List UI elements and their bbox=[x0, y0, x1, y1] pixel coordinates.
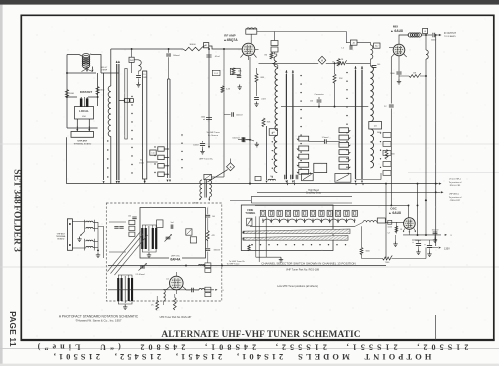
mark bottom right vline bbox=[435, 315, 437, 340]
gnd ps a bbox=[418, 246, 420, 249]
mixer plate wire up bbox=[399, 35, 409, 44]
neutralizing box above tube bbox=[246, 29, 257, 34]
osc coil vert bbox=[164, 290, 166, 301]
fold crease right mid bbox=[408, 172, 499, 174]
bus osc y289.8 bbox=[108, 289, 199, 291]
cap right of tube bbox=[192, 288, 194, 292]
gang2 bar b1 bbox=[128, 278, 130, 301]
UHF ant terminal board bbox=[71, 132, 94, 138]
gang top wires bbox=[142, 225, 156, 228]
osc bottom wire bbox=[408, 233, 410, 235]
coil on busB+ 1 bbox=[199, 265, 205, 266]
cap 68 ticks bbox=[237, 76, 241, 78]
wires LOCAL box down bbox=[76, 119, 78, 131]
balun top coil b bbox=[86, 227, 93, 228]
mix converter box bbox=[369, 122, 382, 130]
rf ladder coil lower bbox=[274, 136, 277, 173]
gang stator a bbox=[148, 226, 150, 251]
uhf coil column lead bbox=[110, 137, 112, 184]
rf tap box 1 bbox=[299, 136, 309, 141]
wire right column bbox=[207, 208, 209, 215]
arrow x right bbox=[445, 234, 447, 236]
rf slug rod 1 bbox=[285, 74, 287, 179]
contact dots col x182 bbox=[181, 134, 182, 135]
vhf ant wires bbox=[72, 221, 85, 223]
bus1 y183.6 bbox=[67, 183, 439, 185]
vertical x250 long bbox=[249, 57, 251, 184]
cap 1000mf ps a bbox=[416, 244, 421, 246]
mix tap box 1 bbox=[339, 128, 349, 133]
trimmer 1-5 cap bbox=[136, 76, 141, 78]
res 5600 mix bbox=[385, 150, 388, 160]
fold crease lower bbox=[0, 266, 499, 268]
bus2 dots bbox=[435, 191, 437, 193]
cap x238-250 y139 gnd bbox=[255, 142, 259, 147]
bus B+ dots bbox=[185, 265, 187, 267]
cap .01 on x209 bbox=[206, 55, 211, 57]
gang diagonal 2 bbox=[111, 234, 144, 274]
wafer1 rod a bbox=[116, 64, 118, 180]
trimmer capacitor bar A bbox=[80, 98, 83, 107]
diagonal diamond to transformer bbox=[208, 170, 228, 182]
channel contact wave bbox=[263, 219, 355, 223]
gang2 bar b2 bbox=[131, 278, 133, 301]
rf ladder coil box break bbox=[269, 129, 277, 136]
rf contact dots bbox=[300, 75, 301, 76]
cap 100mmf mix top bbox=[372, 66, 377, 68]
res 68K x256 bbox=[255, 74, 258, 83]
bus B+ y265.5 bbox=[108, 265, 386, 267]
bottom page edge shadow bbox=[0, 364, 499, 366]
cap .01 x256 bbox=[254, 98, 259, 100]
crystal box wires bbox=[131, 49, 133, 57]
rf tap box 4 bbox=[299, 162, 309, 167]
gnd mixer bbox=[398, 60, 400, 71]
rf ladder coil upper bbox=[275, 69, 278, 131]
antenna tap arrow 2 bbox=[92, 70, 94, 72]
wire y100 bbox=[119, 99, 124, 101]
coil on bus osc bbox=[199, 289, 205, 290]
uhf coil top lead bbox=[110, 73, 112, 86]
mix contact dots bbox=[346, 72, 347, 73]
contact dots col x272 bbox=[272, 132, 273, 133]
rf tap box 2 bbox=[299, 146, 309, 151]
vhf ant terminal strip bbox=[67, 219, 72, 251]
box A7 bbox=[271, 41, 278, 46]
rf choke coil bbox=[139, 60, 142, 71]
wire board to bus bbox=[66, 137, 68, 183]
wire x256 stub bbox=[256, 68, 258, 74]
osc grid cap box bbox=[388, 220, 392, 224]
balun core bot bbox=[84, 239, 86, 251]
transformer core lines bbox=[204, 180, 206, 198]
uhf twin arrows bbox=[167, 180, 169, 182]
svg-text:FOLDER 3: FOLDER 3 bbox=[12, 205, 22, 252]
wafer1 rod b bbox=[118, 64, 120, 180]
cap 100mf x202 bbox=[200, 144, 205, 146]
gang bottom gnd bbox=[142, 249, 156, 252]
balun top coil a bbox=[86, 221, 93, 222]
right drop wire bbox=[97, 73, 99, 106]
channel dots row bbox=[251, 244, 252, 245]
rf tap box 3 bbox=[299, 154, 309, 159]
bus2 y192.3 bbox=[257, 191, 441, 193]
vhf ant dots bbox=[69, 223, 71, 225]
transformer lead left bbox=[200, 197, 203, 200]
vhf ant bottom gnd bbox=[97, 250, 99, 252]
bus3 left stub bbox=[230, 199, 251, 201]
line boxes pair 1 bbox=[205, 263, 211, 268]
left drop wire bbox=[66, 55, 68, 129]
mix right tap box 1 bbox=[383, 133, 391, 138]
top bus right segment bbox=[209, 46, 242, 49]
vertical drops switch bbox=[255, 216, 257, 257]
gnd ps b bbox=[429, 248, 431, 251]
balun bot coil b bbox=[86, 246, 93, 247]
vertical x209 drop bbox=[208, 49, 210, 147]
coil W501 bbox=[408, 33, 421, 37]
node dot left y97 bbox=[66, 96, 68, 98]
bus y63 left bbox=[259, 62, 319, 64]
coil row y180 bbox=[268, 179, 276, 180]
top bus left segment bbox=[111, 48, 183, 50]
b+ boxes col 2 bbox=[158, 155, 164, 159]
uhf dashed enclosure bbox=[106, 203, 222, 301]
transformer secondary winding bbox=[209, 180, 211, 197]
arrow x209 down bbox=[208, 146, 210, 148]
test point diamond B bbox=[227, 163, 235, 171]
frame bottom emphasis bbox=[21, 339, 495, 341]
res 47K right of box bbox=[206, 231, 209, 241]
trimmer capacitor bar B bbox=[86, 98, 89, 107]
node x425 bus3 bbox=[425, 199, 427, 201]
vertical x391.3 long bbox=[390, 57, 392, 104]
coil crossing wires bbox=[83, 68, 93, 72]
osc grid wire bbox=[385, 221, 403, 223]
wire bottom loop bbox=[67, 127, 98, 129]
trimmer arrow inner bbox=[166, 237, 171, 239]
uhf coil column bbox=[108, 86, 111, 136]
wire grid mixer bbox=[370, 59, 372, 63]
rf tube stubs bbox=[241, 54, 244, 58]
vertical x426 ps bbox=[425, 248, 427, 259]
mix tap box 4 bbox=[339, 150, 349, 155]
gang cap bar a2 bbox=[145, 228, 147, 249]
wafer2 arrow bbox=[144, 181, 146, 184]
vertical x391.3 lower bbox=[390, 109, 392, 206]
cap right of box bbox=[205, 215, 210, 217]
mix tap box 2 bbox=[339, 135, 349, 140]
coil interstage bbox=[371, 45, 373, 59]
uhf osc solid box bbox=[140, 208, 206, 259]
svg-text:PAGE 11: PAGE 11 bbox=[8, 311, 17, 347]
antenna tap arrow 1 bbox=[86, 70, 88, 72]
gang diagonal 3 bbox=[115, 235, 148, 275]
mix slug rod 1 bbox=[355, 70, 357, 179]
gang2 bar a1 bbox=[117, 278, 119, 301]
converter bus bbox=[281, 106, 368, 108]
box A12 bbox=[374, 43, 380, 48]
contact dots col x132 bbox=[131, 96, 132, 97]
gnd x256 bbox=[254, 102, 258, 107]
stub 1000mf bbox=[246, 139, 250, 141]
rf big box L32 bbox=[314, 163, 327, 172]
fold crease bottom bbox=[0, 348, 499, 350]
osc tube 6AU8 bbox=[404, 218, 416, 230]
uhf twin lines right bbox=[167, 79, 169, 178]
bus y63 right bbox=[326, 62, 338, 64]
node dot left y73 bbox=[66, 72, 68, 74]
osc cover rect bbox=[251, 197, 352, 203]
wire tube top to box bbox=[250, 34, 252, 43]
mix right tap box 5 bbox=[383, 171, 391, 176]
res 82K bbox=[262, 118, 265, 127]
wafer1 line pre bbox=[103, 73, 105, 180]
row down arrows bbox=[287, 183, 289, 185]
wire A10 to coil bbox=[275, 52, 277, 56]
res 25K bbox=[333, 74, 336, 83]
arrow 135V bbox=[439, 247, 441, 249]
choke top wire bbox=[138, 59, 140, 61]
box L30 bbox=[255, 176, 261, 180]
vertical x426 lower bbox=[425, 59, 427, 235]
RF amp tube 4BQ7A bbox=[242, 43, 255, 56]
res small fine bbox=[248, 245, 250, 251]
trimmer 1-1.5 box bbox=[212, 70, 220, 75]
gang cap bar b2 bbox=[155, 228, 157, 249]
vertical x386 bbox=[385, 184, 387, 259]
wire x202 stub bbox=[202, 141, 204, 143]
rf slug rod 2 bbox=[292, 74, 294, 179]
svg-text:HOTPOINT MODELS 21S401, 21S451: HOTPOINT MODELS 21S401, 21S451, 21S452, … bbox=[51, 352, 432, 361]
res 15K bbox=[409, 73, 421, 77]
balun core top bbox=[84, 220, 86, 232]
bus2 arrow bbox=[441, 191, 444, 193]
cap 2.2 on x391 bbox=[389, 105, 394, 107]
uhf twin top hook bbox=[168, 78, 171, 80]
resistor 36000 bbox=[183, 46, 205, 51]
cap 180mmf bbox=[205, 249, 210, 251]
cap 1MF inner bbox=[171, 225, 173, 229]
row arrows right bbox=[355, 183, 357, 185]
wire ps junction bbox=[418, 240, 420, 243]
b+ boxes col 3 bbox=[158, 164, 164, 168]
hatch bar 1 bbox=[243, 229, 350, 234]
transformer top box bbox=[204, 174, 212, 179]
terminal board arrow 1 bbox=[76, 129, 78, 131]
gnd cap right bbox=[434, 235, 436, 238]
res 1K mixer bbox=[337, 59, 340, 67]
gang cap bar b1 bbox=[152, 228, 154, 249]
stub interstage to A7 bbox=[274, 32, 276, 41]
gang2 bar a2 bbox=[121, 278, 123, 301]
diamond stub up bbox=[230, 159, 232, 163]
wire y235 bbox=[403, 234, 441, 236]
resistor 240ohm left bbox=[65, 90, 68, 98]
res 5600 switch bbox=[361, 226, 363, 247]
vertical x417.5 bbox=[417, 184, 419, 235]
gnd x395 bbox=[393, 242, 397, 247]
uhf cap left pair bbox=[114, 227, 118, 229]
channel wire y226.3 bbox=[250, 225, 355, 227]
uhf osc tube stubs bbox=[175, 272, 177, 276]
gang2 bottom bbox=[118, 301, 132, 304]
box A10 bbox=[271, 47, 278, 52]
wafer2 stem bbox=[144, 179, 146, 182]
if output arrow bbox=[439, 34, 442, 36]
cap 100mf if bbox=[433, 33, 435, 37]
osc cathode drop bbox=[395, 222, 397, 233]
arrow bus osc x bbox=[215, 289, 217, 291]
uhf box small box 1 bbox=[129, 220, 135, 224]
node dot bus x224 bbox=[223, 48, 225, 50]
res under tube bbox=[173, 298, 176, 310]
cap inner top bbox=[132, 217, 136, 219]
stub arrows feed bbox=[86, 67, 88, 70]
wire B+ to boxes bbox=[147, 161, 158, 163]
wire coil to corner bbox=[92, 55, 101, 74]
switch gnd wire bbox=[256, 256, 281, 258]
svg-text:21S502, 21S551, 21S552, 24S801: 21S502, 21S551, 21S552, 24S801, 24S802 (… bbox=[34, 342, 469, 351]
wire y258.5 bbox=[362, 258, 383, 260]
mix rod bottom arrows bbox=[355, 181, 357, 183]
box A106 bbox=[190, 237, 196, 243]
cap 1.5mmf mixer bbox=[350, 45, 352, 49]
switch contact box 1 bbox=[302, 174, 314, 181]
coil below A10 bbox=[274, 56, 277, 67]
mix tap box 3 bbox=[339, 142, 349, 147]
mix slug rod 2 bbox=[361, 70, 363, 179]
wire 25K bbox=[334, 63, 336, 74]
box L8 bbox=[423, 28, 428, 33]
line boxes pair 2 bbox=[205, 287, 211, 292]
vertical x426 down bbox=[425, 35, 427, 50]
mix coil top lead bbox=[369, 63, 371, 66]
contact dots col x108.6 bbox=[107, 140, 108, 141]
trimmer 2.2-10 bbox=[140, 266, 145, 268]
gnd below 10k bbox=[238, 85, 242, 90]
wafer2 tall rect bbox=[143, 71, 147, 179]
mixer tube stubs bbox=[398, 56, 400, 60]
cap 100mmf x168 bbox=[168, 49, 170, 53]
cap 1000mf ps b bbox=[427, 246, 432, 248]
osc tube stubs bbox=[403, 228, 405, 231]
b+ boxes col 4 bbox=[158, 172, 164, 176]
mix tap box 6 bbox=[339, 164, 349, 169]
small box pair on y100 bbox=[124, 99, 129, 103]
cap 1000mf mixer bbox=[396, 72, 401, 74]
cap 100mmf x232 bbox=[224, 114, 231, 116]
cap 1000 w gnd bbox=[242, 137, 244, 142]
wafer1 arrow a bbox=[116, 181, 118, 184]
contact dots col x155 bbox=[154, 146, 155, 147]
left page edge shadow bbox=[0, 0, 3, 366]
hatch bar 2 bbox=[243, 236, 348, 241]
gang diagonal 1 bbox=[108, 232, 141, 272]
channel contact arrows bbox=[262, 219, 264, 221]
uhf box small box 3 bbox=[129, 232, 135, 236]
box A2 on bus bbox=[204, 43, 209, 48]
box 10k grid bbox=[230, 68, 240, 74]
b+ boxes col 1 bbox=[158, 147, 164, 151]
mix right tap box 2 bbox=[383, 142, 391, 147]
bus1 dots bbox=[249, 183, 251, 185]
wire y73 cross bbox=[67, 72, 96, 74]
fold crease upper bbox=[0, 143, 499, 145]
trimmer feed wires bbox=[80, 97, 82, 98]
top black bar bbox=[0, 0, 499, 5]
LOCAL box bbox=[75, 107, 94, 120]
mix ladder coil upper bbox=[370, 66, 373, 122]
wire x224 to transformer bbox=[211, 176, 224, 178]
bus y63 to ladder2 bbox=[346, 62, 371, 64]
mix tap box 5 bbox=[339, 157, 349, 162]
wire 15K bbox=[399, 75, 409, 77]
cap 100mmf right bbox=[433, 232, 438, 234]
res 2K uhf bbox=[156, 301, 159, 311]
terminal board arrow 2 bbox=[88, 129, 90, 131]
mixer tube 6AU8 bbox=[393, 44, 405, 56]
terminal board arrow stems bbox=[76, 126, 78, 130]
narrow strip below box bbox=[125, 69, 127, 140]
uhf osc tube 6AF4 bbox=[170, 276, 184, 290]
res 10k box bbox=[232, 68, 235, 75]
b+ box arrows bbox=[168, 148, 170, 150]
cap 1.5mmf mid bbox=[324, 139, 326, 143]
wire top-left horizontal bbox=[67, 54, 79, 56]
wire y258.5 b bbox=[392, 258, 427, 260]
antenna coil L1 blob bbox=[79, 54, 92, 69]
vertical from bus to wafer bbox=[110, 49, 112, 73]
gang cap bar a1 bbox=[141, 228, 143, 249]
bus1 arrow bbox=[439, 183, 442, 185]
conv cap stub bbox=[318, 97, 320, 99]
res 7500 bbox=[383, 256, 393, 261]
cap 1000mf mid bbox=[243, 137, 245, 142]
test point diamond A bbox=[318, 56, 326, 64]
box L10 bbox=[150, 150, 156, 155]
vhf ant gnd arrow bbox=[81, 232, 85, 236]
channel detent boxes row bbox=[260, 210, 265, 216]
res top left ladder bbox=[270, 53, 273, 60]
uhf box small box 2 bbox=[129, 226, 135, 230]
balun bot coil a bbox=[86, 240, 93, 241]
mix right tap box 3 bbox=[383, 151, 391, 156]
cap 1000mf on x209 bbox=[206, 118, 212, 120]
gang2 stator bbox=[124, 276, 126, 303]
wire a4 to coil bbox=[357, 43, 371, 45]
rf ladder top wire bbox=[277, 65, 279, 69]
hatch bar arrows bbox=[242, 231, 244, 233]
box C105 bbox=[186, 229, 192, 235]
box osc A1 bbox=[377, 218, 385, 223]
res 2.2K bbox=[221, 86, 224, 93]
osc coil 7000 bbox=[363, 221, 377, 223]
bus4 y205.4 bbox=[255, 204, 409, 206]
wafer1 arrow b bbox=[118, 181, 120, 184]
transformer primary winding bbox=[200, 180, 202, 197]
node dot right y97 bbox=[97, 96, 99, 98]
fine tuning contact bbox=[247, 218, 252, 226]
node dot x250 bus1 bbox=[249, 183, 251, 185]
box A4 bbox=[350, 40, 357, 45]
coil on x426 bbox=[426, 50, 428, 59]
vertical x224 long bbox=[223, 86, 225, 92]
rf tap box 5 bbox=[299, 169, 309, 174]
wire y97 bbox=[67, 96, 77, 98]
wire y139.5 bbox=[238, 139, 242, 141]
osc coil wire bbox=[164, 289, 167, 291]
